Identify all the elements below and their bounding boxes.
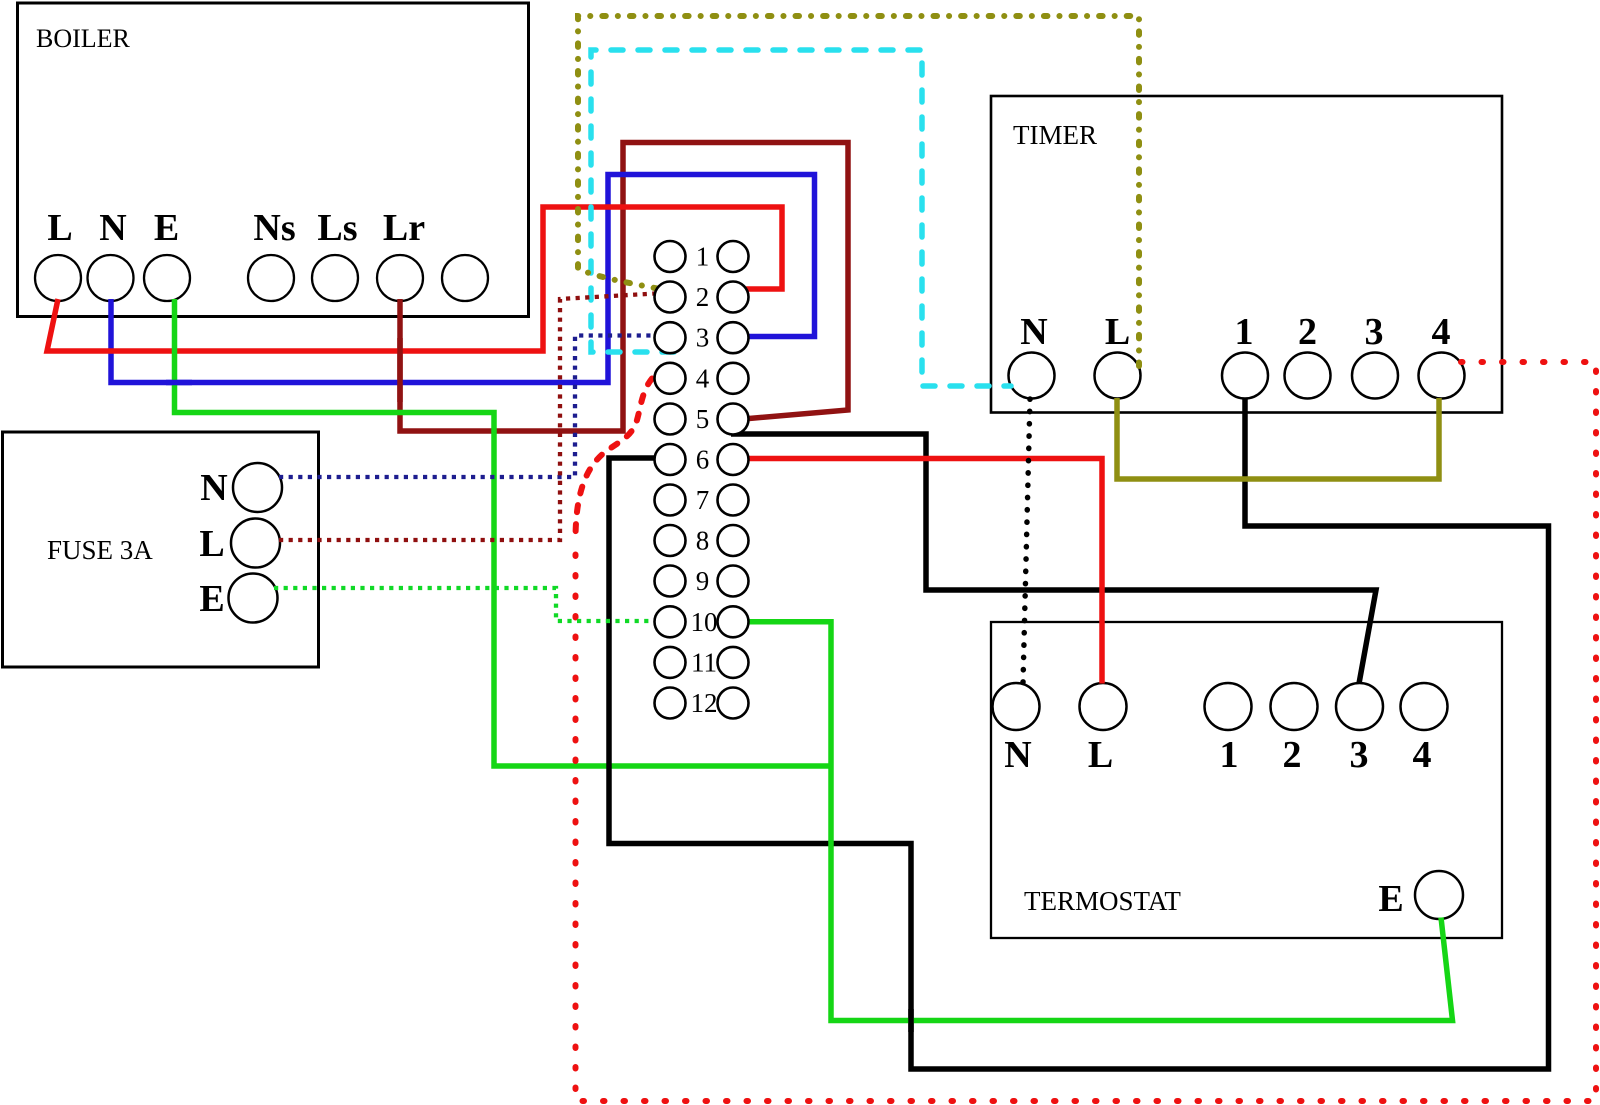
svg-text:E: E: [199, 578, 224, 620]
svg-text:9: 9: [696, 566, 710, 596]
junction terminal 8R: [718, 525, 749, 556]
svg-text:L: L: [199, 523, 224, 565]
svg-text:N: N: [1004, 734, 1031, 776]
wire maroon boiler Lr to junction 5R: [400, 143, 848, 432]
svg-text:1: 1: [696, 242, 710, 272]
wire black dotted timer N to termostat N: [1023, 399, 1030, 683]
svg-text:2: 2: [1298, 311, 1317, 353]
junction terminal 10L: [655, 606, 686, 637]
wire navy dotted fuse N to junction 3L: [279, 336, 656, 478]
wire green boiler E to green junction: [175, 299, 834, 766]
svg-text:5: 5: [696, 404, 710, 434]
fuse box: [3, 432, 319, 667]
svg-text:8: 8: [696, 526, 710, 556]
fuse terminal N: [233, 463, 282, 512]
svg-text:Ls: Ls: [317, 207, 357, 249]
junction terminal 1R: [718, 241, 749, 272]
timer box: [991, 96, 1502, 413]
svg-text:N: N: [200, 467, 227, 509]
svg-text:TIMER: TIMER: [1013, 120, 1097, 150]
svg-text:N: N: [99, 207, 126, 249]
termostat terminal L: [1080, 683, 1127, 730]
svg-text:TERMOSTAT: TERMOSTAT: [1024, 886, 1181, 916]
svg-text:10: 10: [691, 607, 718, 637]
boiler terminal Ns: [248, 255, 294, 301]
termostat terminal E: [1415, 871, 1463, 919]
timer terminal 1: [1222, 353, 1268, 399]
wire maroon dotted fuse L to junction 2L: [279, 294, 655, 541]
svg-text:4: 4: [1413, 734, 1432, 776]
svg-text:1: 1: [1220, 734, 1239, 776]
boiler box: [18, 3, 529, 317]
wire red dashed timer 4 to junction 4L: [576, 362, 1597, 1101]
termostat terminal N: [993, 683, 1040, 730]
junction terminal 2L: [655, 282, 686, 313]
termostat terminal 4: [1401, 683, 1448, 730]
svg-text:N: N: [1020, 311, 1047, 353]
svg-text:2: 2: [1283, 734, 1302, 776]
svg-text:E: E: [154, 207, 179, 249]
junction terminal 4L: [655, 363, 686, 394]
junction terminal 9L: [655, 566, 686, 597]
junction terminal 4R: [718, 363, 749, 394]
svg-text:6: 6: [696, 445, 710, 475]
junction terminal 3R: [718, 322, 749, 353]
junction terminal 3L: [655, 322, 686, 353]
svg-text:3: 3: [1350, 734, 1369, 776]
timer terminal 4: [1419, 353, 1465, 399]
svg-text:3: 3: [1365, 311, 1384, 353]
junction terminal 7R: [718, 485, 749, 516]
timer terminal 3: [1352, 353, 1398, 399]
wire black crossing patch: [908, 1009, 914, 1032]
svg-text:L: L: [1088, 734, 1113, 776]
junction terminal 2R: [718, 282, 749, 313]
wire blue boiler N to junction 3R: [111, 175, 815, 383]
junction terminal 11L: [655, 647, 686, 678]
svg-text:2: 2: [696, 282, 710, 312]
svg-text:Lr: Lr: [383, 207, 425, 249]
wire green dotted fuse E to junction 10L: [274, 588, 655, 621]
wire cyan junction 3L to timer N: [591, 50, 1011, 386]
junction terminal 9R: [718, 566, 749, 597]
timer terminal 2: [1285, 353, 1331, 399]
junction terminal 6L: [655, 444, 686, 475]
termostat box: [991, 622, 1502, 938]
wire olive dotted junction 2L to timer L: [578, 16, 1139, 366]
termostat terminal 2: [1271, 683, 1318, 730]
svg-text:12: 12: [691, 688, 718, 718]
svg-text:BOILER: BOILER: [36, 24, 131, 53]
svg-text:L: L: [1105, 311, 1130, 353]
svg-text:1: 1: [1235, 311, 1254, 353]
wire maroon crossing patch: [397, 338, 403, 402]
svg-text:L: L: [47, 207, 72, 249]
svg-text:FUSE 3A: FUSE 3A: [47, 535, 153, 565]
junction terminal 8L: [655, 525, 686, 556]
wire black timer 1 to junction 6L: [609, 398, 1549, 1069]
junction terminal 1L: [655, 241, 686, 272]
junction terminal 12L: [655, 688, 686, 719]
wire blue crossing patch: [166, 380, 192, 386]
svg-text:4: 4: [696, 363, 710, 393]
boiler terminal Lr: [377, 255, 423, 301]
boiler terminal unlabeled: [442, 255, 488, 301]
junction terminal 6R: [718, 444, 749, 475]
timer terminal N: [1009, 353, 1055, 399]
boiler terminal N: [88, 255, 134, 301]
svg-text:E: E: [1378, 878, 1403, 920]
junction terminal 5L: [655, 404, 686, 435]
timer terminal L: [1095, 353, 1141, 399]
junction terminal 7L: [655, 485, 686, 516]
wire red boiler L to junction 2R: [47, 207, 782, 351]
wire red junction 6R to termostat L: [748, 459, 1102, 684]
svg-text:4: 4: [1432, 311, 1451, 353]
svg-text:7: 7: [696, 485, 710, 515]
svg-text:3: 3: [696, 323, 710, 353]
wire olive timer L to timer 4: [1117, 398, 1439, 479]
fuse terminal E: [229, 574, 278, 623]
wire green junction 10R to termostat E: [747, 622, 1453, 1021]
fuse terminal L: [231, 519, 280, 568]
termostat terminal 1: [1205, 683, 1252, 730]
wire black junction 5R to termostat 3: [731, 434, 1376, 684]
wire red dashed curve into junction 4L: [576, 379, 653, 541]
boiler terminal E: [144, 255, 190, 301]
termostat terminal 3: [1336, 683, 1383, 730]
junction terminal 11R: [718, 647, 749, 678]
svg-text:11: 11: [691, 647, 717, 677]
svg-text:Ns: Ns: [253, 207, 295, 249]
boiler terminal Ls: [312, 255, 358, 301]
junction terminal 12R: [718, 688, 749, 719]
boiler terminal L: [35, 255, 81, 301]
junction terminal 10R: [718, 606, 749, 637]
junction terminal 5R: [718, 404, 749, 435]
